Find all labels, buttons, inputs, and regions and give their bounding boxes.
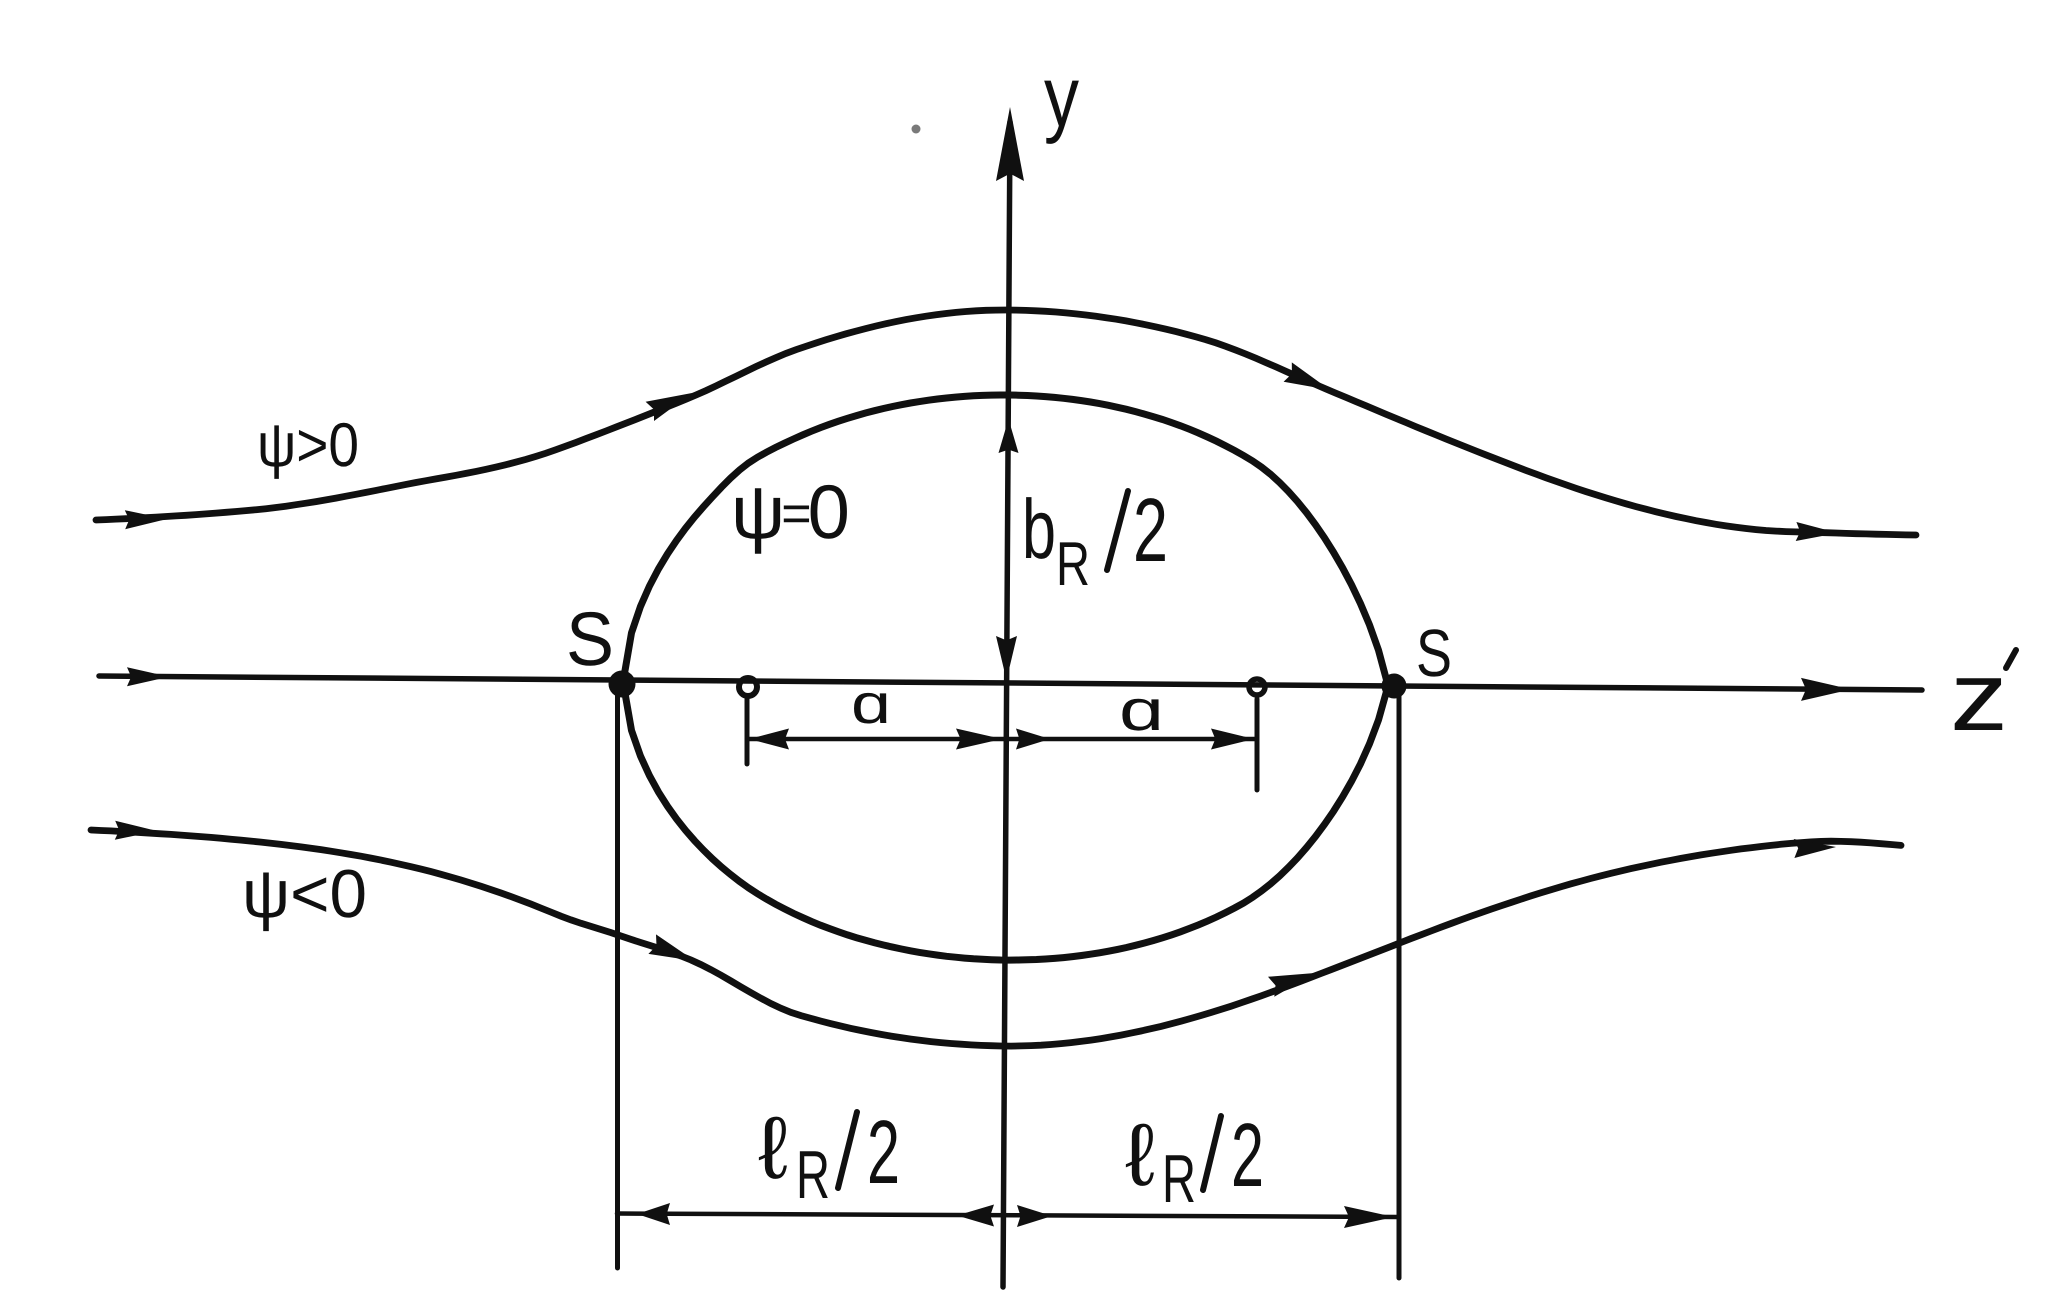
svg-text:2: 2 <box>1133 481 1168 581</box>
svg-text:b: b <box>1022 482 1056 576</box>
streamline psi<0 (lower) <box>91 830 1901 1046</box>
arrow psi<0 right <box>1794 839 1836 858</box>
extension tick below right sink circle <box>1255 699 1260 790</box>
left stagnation point S (dot) <box>609 671 636 698</box>
arrow psi>0 right <box>1796 522 1838 541</box>
arrow z-axis right <box>1801 678 1851 701</box>
extension line below right stagnation point S <box>1397 692 1402 1278</box>
prime tick of z' <box>2006 650 2016 668</box>
arrow psi<0 mid-right <box>1268 973 1315 997</box>
left source (open circle) <box>739 678 757 696</box>
svg-text:ℓ: ℓ <box>758 1098 788 1197</box>
svg-text:2: 2 <box>1231 1106 1264 1206</box>
svg-text:ℓ: ℓ <box>1125 1105 1155 1204</box>
oval body contour psi=0 <box>622 395 1394 960</box>
extension tick below left source circle <box>745 699 750 764</box>
dimension line lR/2 lR/2 <box>617 1214 1399 1218</box>
svg-text:z: z <box>1950 641 2008 751</box>
arrow dim-lR center-left <box>957 1205 994 1227</box>
arrow dim-a center-right <box>1016 729 1050 750</box>
svg-text:R: R <box>796 1137 830 1213</box>
svg-text:R: R <box>1056 530 1090 599</box>
arrow psi>0 mid-right <box>1284 362 1330 390</box>
arrow z-axis left <box>127 667 169 686</box>
stray scan speck <box>912 125 921 134</box>
right stagnation point S (dot) <box>1382 674 1407 699</box>
svg-text:S: S <box>1416 616 1452 691</box>
arrow dim-lR far-right <box>1344 1206 1394 1228</box>
svg-text:R: R <box>1162 1141 1196 1217</box>
y-axis (vertical), extends below origin as center extension line <box>1003 122 1010 1287</box>
arrow dim-lR far-left <box>637 1203 670 1225</box>
arrow psi<0 left <box>115 821 157 840</box>
svg-text:2: 2 <box>867 1103 900 1203</box>
svg-text:ψ<0: ψ<0 <box>242 856 367 932</box>
svg-text:ɑ: ɑ <box>1119 678 1164 743</box>
arrow psi>0 mid-left <box>646 393 692 421</box>
arrow dim-a far-right <box>1211 729 1254 750</box>
arrow psi<0 mid-left <box>648 934 695 961</box>
extension line below left stagnation point S <box>615 688 620 1268</box>
arrow dim-a center-left <box>956 729 1002 750</box>
arrow y-axis top <box>996 107 1024 181</box>
arrow bR/2 down <box>996 636 1017 680</box>
svg-text:y: y <box>1044 49 1079 145</box>
streamline psi>0 (upper) <box>96 310 1916 535</box>
svg-text:ψ>0: ψ>0 <box>257 411 359 480</box>
dimension line a-a <box>747 737 1256 742</box>
svg-text:ɑ: ɑ <box>851 672 891 735</box>
arrow psi>0 left <box>125 510 167 529</box>
arrow dim-lR center-right <box>1017 1205 1052 1227</box>
right sink (open circle) <box>1249 679 1265 695</box>
arrow bR/2 up <box>999 419 1019 453</box>
z-axis (horizontal) <box>99 676 1922 690</box>
arrow dim-a far-left <box>749 729 789 750</box>
svg-text:S: S <box>566 597 614 682</box>
